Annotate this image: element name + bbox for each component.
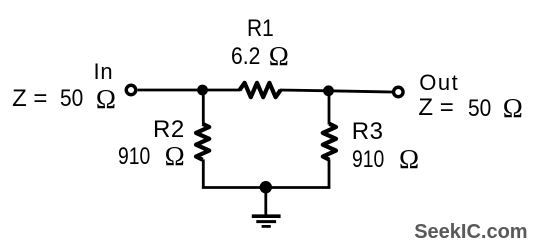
unit ohm (R2): [165, 143, 185, 170]
terminal Out: [394, 87, 404, 97]
value 910 (R2): [118, 145, 150, 169]
label R2: [153, 118, 185, 142]
value 910 (R3): [352, 148, 384, 172]
wire node C to ground: [264, 187, 267, 214]
label Z = 50 (output impedance): [418, 96, 453, 120]
label R1: [247, 17, 274, 41]
wire R1 to node B: [280, 89, 329, 93]
node A junction dot: [197, 85, 208, 96]
wire R2 down to bottom wire: [202, 159, 205, 187]
wire In to node A: [138, 89, 203, 92]
wire node A down to R2: [202, 90, 205, 125]
watermark SeekIC.com: [414, 222, 527, 242]
ground: [252, 216, 281, 226]
resistor R2 zigzag: [196, 124, 209, 160]
wire node B down to R3: [328, 91, 331, 125]
node C junction dot (ground node): [260, 181, 272, 193]
terminal In: [126, 85, 136, 95]
value label 6.2 (R1): [231, 45, 260, 69]
value unit ohm (R1): [269, 43, 289, 70]
bottom wire: [202, 186, 331, 189]
wire node B to Out: [329, 91, 393, 92]
label Z = 50 (input impedance): [12, 87, 47, 111]
unit ohm (output impedance): [503, 95, 523, 122]
value 50 (input impedance): [60, 87, 83, 111]
label Out: [419, 72, 459, 94]
unit ohm (input impedance): [96, 86, 116, 113]
resistor R1 zigzag: [240, 83, 281, 97]
wire R3 down to bottom wire: [328, 159, 331, 187]
label R3: [352, 120, 384, 144]
node B junction dot: [323, 85, 334, 96]
value 50 (output impedance): [468, 97, 491, 121]
wire node A to R1: [203, 89, 241, 92]
resistor R3 zigzag: [323, 124, 336, 160]
label In: [94, 61, 114, 83]
unit ohm (R3): [399, 146, 419, 173]
